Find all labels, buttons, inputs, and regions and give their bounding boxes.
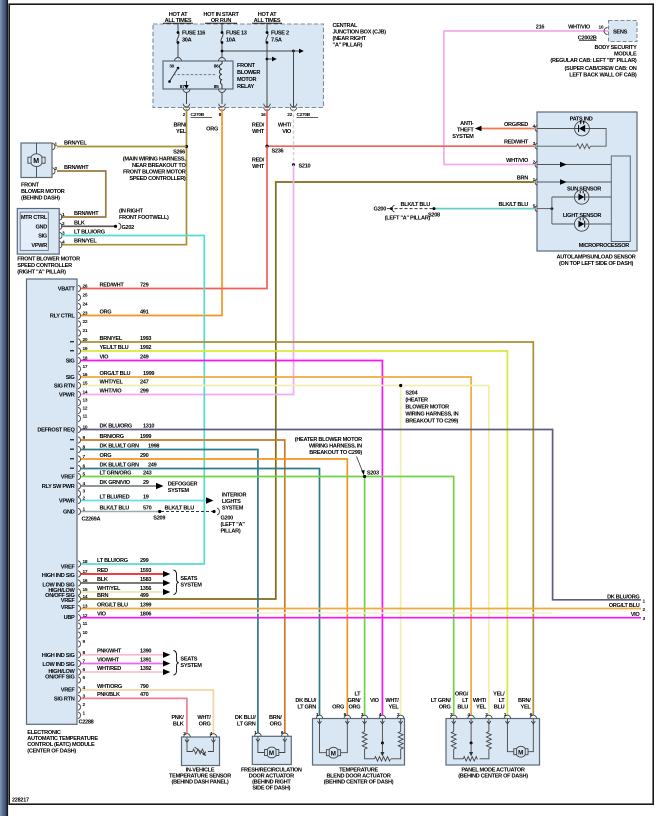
svg-text:LT: LT [499, 698, 506, 704]
svg-text:30: 30 [169, 64, 174, 70]
wire WHT/RED 1392 pin6 to seats system [81, 671, 163, 673]
svg-text:PNK/BLK: PNK/BLK [97, 692, 120, 698]
EATC C2269 tiny pin marks [70, 341, 74, 469]
pin sockets [184, 734, 191, 737]
wire ORG/RED pin4 to anti-theft [481, 128, 534, 130]
svg-text:SIG: SIG [66, 359, 75, 365]
front blower motor relay box [163, 61, 233, 89]
svg-text:DK BLU/LT GRN: DK BLU/LT GRN [100, 462, 139, 468]
svg-text:SIG RTN: SIG RTN [54, 697, 75, 703]
svg-text:LT BLU/RED: LT BLU/RED [100, 494, 130, 500]
svg-text:PNK/: PNK/ [171, 715, 184, 721]
svg-text:SPEED CONTROLLER): SPEED CONTROLLER) [129, 176, 186, 182]
motor pin 2 socket [53, 168, 55, 174]
svg-text:WHT/: WHT/ [385, 698, 399, 704]
wire LT BLU/ORG controller pin3 to EATC C2288 pin18 [61, 236, 204, 565]
svg-text:RLY CTRL: RLY CTRL [50, 314, 76, 320]
fresh/recirculation door actuator box [252, 736, 291, 764]
svg-text:BRN/YEL: BRN/YEL [64, 140, 87, 146]
svg-text:G200: G200 [221, 516, 234, 522]
svg-text:VBATT: VBATT [58, 287, 76, 293]
wire WHT/ORG 790 pin4 to in-vehicle temp sensor pin4 [81, 690, 213, 734]
front blower motor box [21, 143, 52, 178]
svg-text:WHT/VIO: WHT/VIO [568, 25, 591, 31]
splice S204 with branch to blend actuator pin2 [400, 386, 402, 716]
svg-text:RELAY: RELAY [237, 84, 255, 90]
blend motor circuit [320, 719, 348, 759]
connector C270B label right [297, 112, 319, 118]
svg-text:87: 87 [180, 84, 185, 90]
svg-text:MTR CTRL: MTR CTRL [21, 215, 48, 221]
svg-text:SYSTEM: SYSTEM [168, 488, 190, 494]
svg-text:ORG: ORG [332, 705, 344, 711]
svg-text:NEAR BREAKOUT TO: NEAR BREAKOUT TO [132, 163, 186, 169]
svg-text:SEATS: SEATS [180, 576, 197, 582]
svg-text:14: 14 [83, 594, 88, 600]
svg-text:BRN/YEL: BRN/YEL [100, 336, 123, 342]
svg-text:10: 10 [83, 630, 88, 636]
svg-text:S204: S204 [405, 390, 418, 396]
svg-text:VREF: VREF [61, 688, 76, 694]
svg-text:G200: G200 [374, 207, 387, 213]
svg-text:YEL: YEL [476, 705, 487, 711]
svg-text:SIG: SIG [66, 375, 75, 381]
relay pin 86 socket [219, 58, 226, 62]
svg-text:ORG/LT BLU: ORG/LT BLU [609, 603, 640, 609]
svg-text:299: 299 [140, 558, 149, 564]
panel mode actuator box [446, 719, 540, 766]
svg-text:299: 299 [140, 388, 149, 394]
svg-text:1992: 1992 [140, 345, 151, 351]
svg-text:ON/OFF SIG: ON/OFF SIG [45, 675, 74, 681]
relay switch arm [168, 67, 217, 83]
wire BLK/LT BLU 570 pin1 to S209 [81, 511, 159, 513]
svg-text:24: 24 [83, 302, 88, 308]
svg-text:VPWR: VPWR [59, 393, 75, 399]
svg-text:1583: 1583 [140, 577, 151, 583]
svg-text:BRN: BRN [97, 593, 108, 599]
svg-text:FRONT: FRONT [21, 183, 40, 189]
EATC C2288 pin numbers [83, 559, 88, 716]
brace and label seats system upper [174, 570, 179, 595]
svg-text:MICROPROCESSOR: MICROPROCESSOR [579, 243, 629, 249]
svg-text:FRONT: FRONT [237, 63, 256, 69]
EATC module box [27, 279, 78, 724]
svg-text:AUTOMATIC TEMPERATURE: AUTOMATIC TEMPERATURE [27, 736, 98, 742]
splice S210 [292, 163, 295, 166]
wire BRN/YEL 1993 pin20 to panel mode actuator pin6 [81, 342, 533, 716]
svg-text:WIRING HARNESS, IN: WIRING HARNESS, IN [405, 411, 458, 417]
svg-text:WHT/ORG: WHT/ORG [97, 684, 122, 690]
svg-text:S209: S209 [153, 515, 165, 521]
panel feedback resistor right [480, 719, 492, 759]
svg-text:BRN/: BRN/ [269, 715, 282, 721]
svg-text:(ON TOP LEFT SIDE OF DASH): (ON TOP LEFT SIDE OF DASH) [559, 261, 633, 267]
svg-text:13: 13 [83, 398, 88, 404]
svg-text:SYSTEM: SYSTEM [452, 134, 474, 140]
speed controller label [17, 257, 80, 276]
wire BLK controller pin2 to G202 [61, 225, 114, 227]
wire VIO 1806 pin12 to right edge exit 3 [81, 617, 641, 619]
svg-text:12: 12 [83, 406, 88, 412]
svg-text:21: 21 [83, 328, 88, 334]
svg-text:YEL: YEL [176, 129, 187, 135]
svg-text:(CENTER OF DASH): (CENTER OF DASH) [27, 748, 76, 754]
svg-text:790: 790 [140, 684, 149, 690]
blend potentiometer track [375, 757, 391, 761]
relay contact 87 [180, 81, 189, 90]
svg-text:S266: S266 [173, 150, 185, 156]
wire pin2 to microprocessor with arrow [537, 164, 611, 166]
svg-text:BLU: BLU [457, 705, 468, 711]
EATC C2269 pin numbers [83, 284, 88, 513]
wire RED 1593 pin17 to seats system [81, 573, 163, 575]
svg-text:BLK/LT BLU: BLK/LT BLU [400, 202, 430, 208]
EATC C2269 left pin-name labels [37, 287, 75, 516]
wire RED/WHT CJB pin16 to S236 [266, 109, 268, 146]
svg-text:HIGH IND SIG: HIGH IND SIG [42, 653, 75, 659]
svg-text:BLK/LT BLU: BLK/LT BLU [165, 505, 195, 511]
svg-text:(LEFT "A": (LEFT "A" [221, 522, 246, 528]
svg-text:LT: LT [462, 698, 469, 704]
svg-text:INTERIOR: INTERIOR [222, 492, 247, 498]
svg-text:FRONT BLOWER MOTOR: FRONT BLOWER MOTOR [123, 170, 186, 176]
svg-text:7.5A: 7.5A [271, 38, 282, 44]
entry arrows [185, 740, 189, 743]
svg-text:VIO/WHT: VIO/WHT [97, 657, 120, 663]
motor symbol M [28, 143, 45, 178]
panel motor circuit [507, 719, 533, 758]
entry arrows [452, 721, 536, 724]
svg-text:LT: LT [354, 692, 361, 698]
wire pin1 to microprocessor with arrow [537, 181, 611, 183]
blend feedback resistor right [391, 719, 403, 759]
PATS IND LED [570, 116, 593, 136]
svg-text:1999: 1999 [140, 434, 151, 440]
svg-text:DEFOGGER: DEFOGGER [168, 481, 198, 487]
wire relay 87 to CJB pin 2 [186, 93, 188, 105]
wire pin4 to LED and LED to resistor loop [537, 128, 575, 130]
svg-text:ORG/LT BLU: ORG/LT BLU [100, 371, 131, 377]
splice S236 [265, 145, 268, 148]
wire BLK 1583 pin16 to seats system [81, 582, 163, 584]
svg-text:10: 10 [599, 25, 604, 31]
svg-text:SEATS: SEATS [180, 657, 197, 663]
svg-text:BREAKOUT TO C299): BREAKOUT TO C299) [405, 418, 458, 424]
splice S209 [158, 510, 161, 513]
svg-text:1310: 1310 [143, 423, 154, 429]
ground lead dashed to G200 [395, 208, 435, 210]
svg-text:(SUPER CAB/CREW CAB: ON: (SUPER CAB/CREW CAB: ON [564, 66, 636, 72]
wire WHT/VIO S210 to EATC pin14 [81, 165, 294, 395]
svg-text:WHT/VIO: WHT/VIO [100, 388, 123, 394]
svg-text:BRN/: BRN/ [174, 123, 187, 129]
svg-text:BLOWER MOTOR: BLOWER MOTOR [405, 404, 449, 410]
svg-text:VIO: VIO [97, 612, 107, 618]
svg-text:1593: 1593 [140, 568, 151, 574]
svg-text:10A: 10A [226, 38, 236, 44]
temperature blend door actuator box [313, 719, 405, 766]
svg-text:247: 247 [140, 379, 149, 385]
svg-text:MOTOR: MOTOR [237, 77, 256, 83]
svg-text:M: M [269, 750, 274, 757]
sensor pin sockets on left edge [535, 125, 537, 212]
front blower motor label [21, 183, 65, 202]
svg-text:M: M [518, 749, 523, 756]
svg-text:ORG/LT BLU: ORG/LT BLU [97, 602, 128, 608]
svg-text:216: 216 [536, 25, 545, 31]
svg-text:19: 19 [143, 494, 149, 500]
motor pin 1 socket [53, 143, 55, 149]
svg-text:LIGHTS: LIGHTS [222, 499, 241, 505]
svg-text:ORG: ORG [100, 453, 112, 459]
svg-text:LT GRN: LT GRN [297, 705, 316, 711]
pin sockets [450, 715, 536, 718]
label HOT AT ALL TIMES (right) [252, 12, 282, 24]
svg-text:M: M [331, 750, 336, 757]
svg-text:(BEHIND DASH PANEL): (BEHIND DASH PANEL) [172, 779, 229, 785]
svg-text:GRN/: GRN/ [348, 698, 362, 704]
BSM name label [550, 45, 637, 79]
wire DK GRN/VIO 29 pin4 to defogger system [81, 485, 156, 487]
svg-text:FUSE 116: FUSE 116 [182, 31, 205, 37]
svg-text:LIGHT SENSOR: LIGHT SENSOR [563, 213, 602, 219]
svg-text:86: 86 [214, 64, 219, 70]
svg-text:1356: 1356 [140, 586, 151, 592]
svg-text:RED/: RED/ [252, 158, 265, 164]
svg-text:DK BLU/ORG: DK BLU/ORG [607, 594, 639, 600]
wire sun sensor to microprocessor [589, 196, 611, 198]
svg-text:PNK/WHT: PNK/WHT [97, 649, 122, 655]
svg-text:"A" PILLAR): "A" PILLAR) [333, 43, 363, 49]
svg-text:YEL/: YEL/ [493, 692, 505, 698]
svg-text:MODULE: MODULE [614, 52, 637, 58]
svg-text:(HEATER BLOWER MOTOR: (HEATER BLOWER MOTOR [295, 437, 362, 443]
svg-text:THEFT: THEFT [457, 128, 474, 134]
wire pin5 common [537, 208, 552, 210]
svg-text:1391: 1391 [140, 657, 151, 663]
svg-text:SIG RTN: SIG RTN [54, 384, 75, 390]
wire BRN/YEL 361 CJB pin2 to S266 to controller VPWR [61, 109, 187, 245]
motor circuit [258, 736, 285, 758]
relay bottom sockets [183, 89, 190, 93]
label HOT IN START OR RUN [203, 12, 239, 24]
svg-text:ORG/RED: ORG/RED [504, 122, 528, 128]
ground G202 [114, 225, 117, 228]
harness note at S203 [295, 437, 365, 475]
svg-text:WHT: WHT [252, 129, 265, 135]
wire PNK/WHT 1390 pin8 to seats system [81, 654, 163, 656]
svg-text:WHT/YEL: WHT/YEL [100, 379, 124, 385]
svg-text:VIO: VIO [100, 354, 110, 360]
svg-text:WHT: WHT [252, 164, 265, 170]
splice S266 [185, 145, 188, 148]
svg-text:22: 22 [83, 319, 88, 325]
svg-text:SYSTEM: SYSTEM [180, 663, 202, 669]
svg-text:WHT/: WHT/ [278, 123, 292, 129]
svg-text:LT GRN: LT GRN [237, 722, 256, 728]
connector C2002B half-symbol [604, 28, 607, 35]
svg-text:249: 249 [140, 354, 149, 360]
svg-text:GND: GND [63, 510, 75, 516]
svg-text:LOW IND SIG: LOW IND SIG [42, 662, 74, 668]
ground lead dashed S209 to G200 [161, 511, 213, 513]
ground G200 (left A pillar) [212, 510, 215, 513]
wire DK BLU/LT GRN 249 pin6 to blend door actuator pin1 [81, 469, 320, 716]
svg-text:AUTOLAMP/SUNLOAD SENSOR: AUTOLAMP/SUNLOAD SENSOR [556, 254, 635, 260]
left window strip [0, 0, 7, 816]
svg-text:25: 25 [83, 293, 88, 299]
svg-text:UBP: UBP [64, 615, 75, 621]
svg-text:ORG: ORG [270, 722, 282, 728]
svg-text:ORG: ORG [206, 127, 218, 133]
wire BRN/ORG 1999 pin9 to fresh/recirc actuator pin6 [81, 440, 285, 733]
wire RED/WHT sensor pin3 to S236 [267, 145, 534, 147]
svg-text:BRN/: BRN/ [518, 698, 531, 704]
svg-text:1999: 1999 [143, 371, 154, 377]
svg-text:BLOWER MOTOR: BLOWER MOTOR [21, 189, 65, 195]
panel wiper from ORG/LT BLU pin [470, 719, 472, 744]
svg-text:DK BLU/: DK BLU/ [295, 698, 316, 704]
harness note at S266 [123, 157, 187, 183]
svg-text:11: 11 [83, 414, 88, 420]
footwell note [119, 209, 169, 222]
wire bus from fuse 13 to pin 22 drop [221, 49, 304, 108]
svg-text:RED/WHT: RED/WHT [504, 140, 529, 146]
wire VIO 249 pin18 to blend door actuator pin4 [81, 361, 382, 716]
body security module SENS box [609, 21, 638, 42]
entry arrows [318, 721, 403, 724]
svg-text:17: 17 [83, 364, 88, 370]
svg-text:(NEAR RIGHT: (NEAR RIGHT [333, 36, 367, 42]
svg-text:JUNCTION BOX (CJB): JUNCTION BOX (CJB) [333, 30, 387, 36]
svg-text:(HEATER: (HEATER [405, 397, 428, 403]
svg-text:DK GRN/VIO: DK GRN/VIO [100, 480, 131, 486]
wire DK BLU/ORG 1310 pin10 to right edge exit 1 [81, 430, 641, 600]
thermistor circuit [187, 737, 213, 755]
svg-text:WHT/VIO: WHT/VIO [506, 158, 529, 164]
svg-text:FUSE 13: FUSE 13 [226, 31, 247, 37]
blend feedback resistor left [362, 719, 374, 759]
resistor in sensor [577, 144, 591, 149]
svg-text:WHT/YEL: WHT/YEL [97, 586, 121, 592]
svg-text:BLK: BLK [74, 220, 85, 226]
svg-text:290: 290 [140, 453, 149, 459]
controller pin sockets [60, 214, 62, 248]
fuse F2 7.5A [266, 23, 268, 107]
svg-text:WHT/RED: WHT/RED [97, 666, 121, 672]
label HOT AT ALL TIMES (left) [163, 12, 193, 24]
wire DK BLU/LT GRN 1998 pin8 to fresh/recirc actuator pin1 [81, 450, 258, 734]
wire BRN/WHT motor pin2 to controller pin1 [57, 171, 106, 217]
wire WHT faint crossing [200, 612, 552, 614]
svg-text:CONTROL (EATC) MODULE: CONTROL (EATC) MODULE [27, 742, 95, 748]
svg-text:RED/WHT: RED/WHT [100, 282, 125, 288]
svg-text:YEL: YEL [389, 705, 400, 711]
svg-text:SPEED CONTROLLER: SPEED CONTROLLER [17, 263, 72, 269]
svg-text:BRN: BRN [517, 176, 528, 182]
svg-text:DEFROST REQ: DEFROST REQ [37, 428, 75, 434]
EATC module name label [27, 730, 98, 755]
svg-text:VPWR: VPWR [59, 499, 75, 505]
svg-text:491: 491 [140, 309, 149, 315]
svg-text:(BEHIND DASH): (BEHIND DASH) [21, 196, 60, 202]
svg-text:SIG: SIG [38, 234, 47, 240]
svg-text:SIDE OF DASH): SIDE OF DASH) [252, 785, 290, 791]
svg-text:(REGULAR CAB: LEFT "B" PILLAR): (REGULAR CAB: LEFT "B" PILLAR) [550, 58, 637, 64]
wire pin3 to resistor [537, 145, 577, 147]
svg-text:30A: 30A [182, 38, 192, 44]
svg-text:YEL/LT BLU: YEL/LT BLU [100, 345, 129, 351]
svg-text:(LEFT "A" PILLAR): (LEFT "A" PILLAR) [385, 216, 431, 222]
svg-text:FRONT BLOWER MOTOR: FRONT BLOWER MOTOR [17, 257, 80, 263]
svg-text:ANTI-: ANTI- [460, 121, 474, 127]
relay coil 85/86 [219, 61, 222, 89]
svg-text:243: 243 [143, 470, 152, 476]
svg-text:570: 570 [143, 505, 152, 511]
svg-text:(IN RIGHT: (IN RIGHT [119, 209, 144, 215]
wire BRN/YEL motor pin1 to S266 [57, 146, 187, 148]
svg-text:BLK/LT BLU: BLK/LT BLU [498, 202, 528, 208]
wire WHT/YEL 1356 pin15 to seats system [81, 591, 163, 593]
svg-text:470: 470 [140, 692, 149, 698]
svg-text:16: 16 [261, 112, 266, 118]
svg-text:(MAIN WIRING HARNESS,: (MAIN WIRING HARNESS, [123, 157, 186, 163]
svg-text:BLK: BLK [173, 722, 184, 728]
wire relay 85 to CJB pin 8 [221, 93, 223, 105]
svg-text:(RIGHT "A" PILLAR): (RIGHT "A" PILLAR) [17, 270, 66, 276]
speed controller inner box [20, 212, 48, 250]
svg-text:LT BLU/ORG: LT BLU/ORG [74, 230, 105, 236]
svg-text:14: 14 [83, 390, 88, 396]
wire ORG 491 CJB pin8 to EATC pin23 [81, 109, 222, 316]
svg-text:RLY SW PWR: RLY SW PWR [42, 484, 75, 490]
svg-text:DK BLU/ORG: DK BLU/ORG [100, 423, 132, 429]
central junction box CJB dashed enclosure [153, 24, 324, 108]
svg-text:SYSTEM: SYSTEM [222, 505, 244, 511]
svg-text:ORG/: ORG/ [455, 692, 469, 698]
svg-text:VREF: VREF [61, 475, 76, 481]
svg-text:SENS: SENS [613, 30, 628, 36]
svg-text:C2288: C2288 [79, 720, 94, 726]
wire VIO/WHT 1391 pin7 to seats system [81, 663, 163, 665]
wire LT GRN/ORG 243 pin5 to S203 and actuators [81, 477, 454, 716]
svg-text:HIGH IND SIG: HIGH IND SIG [42, 573, 75, 579]
svg-text:1392: 1392 [140, 666, 151, 672]
svg-text:11: 11 [83, 621, 88, 627]
svg-text:FRONT FOOTWELL): FRONT FOOTWELL) [119, 215, 169, 221]
svg-text:18: 18 [83, 559, 88, 565]
svg-text:VPWR: VPWR [31, 243, 47, 249]
microprocessor block [611, 156, 630, 242]
svg-text:PILLAR): PILLAR) [221, 529, 241, 535]
wire LT BLU/RED 19 pin2 to interior lights system [81, 500, 206, 502]
svg-text:249: 249 [148, 462, 157, 468]
wire WHT/VIO CJB pin22 to S210 (white lead) [293, 109, 295, 165]
wire YEL/LT BLU 1992 pin19 to panel mode actuator pin1 [81, 351, 507, 716]
panel feedback resistor left [451, 719, 463, 759]
svg-text:WHT/: WHT/ [473, 698, 487, 704]
svg-text:C2269A: C2269A [82, 517, 101, 523]
svg-text:BODY SECURITY: BODY SECURITY [595, 45, 638, 51]
svg-text:(BEHIND CENTER OF DASH): (BEHIND CENTER OF DASH) [458, 773, 528, 779]
splice S208 [433, 207, 436, 210]
pin sockets [255, 733, 262, 736]
svg-text:VIO: VIO [631, 612, 641, 618]
svg-text:26: 26 [83, 284, 88, 290]
SUN SENSOR photodiode [567, 186, 601, 204]
svg-text:WIRING HARNESS, IN: WIRING HARNESS, IN [309, 443, 362, 449]
